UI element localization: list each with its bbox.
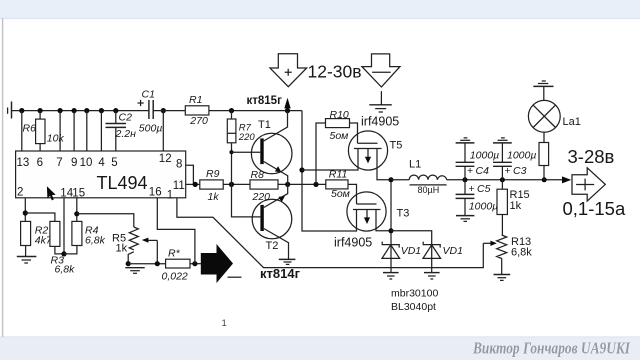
node T1 collector xyxy=(285,108,290,113)
svg-text:0,022: 0,022 xyxy=(162,271,188,283)
svg-text:+: + xyxy=(469,183,475,195)
node R7 top xyxy=(229,108,234,113)
svg-text:7: 7 xyxy=(56,157,62,169)
node pin2 xyxy=(23,210,28,215)
node emitters xyxy=(285,182,290,187)
resistor R9 xyxy=(200,168,223,203)
svg-text:irf4905: irf4905 xyxy=(334,236,372,250)
svg-text:BL3040pt: BL3040pt xyxy=(391,301,436,313)
resistor (lamp ballast) xyxy=(539,132,549,180)
svg-text:270: 270 xyxy=(189,115,208,127)
node R3/R4/pin14 xyxy=(61,251,66,256)
node R5 ground xyxy=(126,261,131,266)
node pin7 xyxy=(58,108,63,113)
svg-text:0,1-15a: 0,1-15a xyxy=(563,198,626,219)
ground (T2 collector) xyxy=(279,259,296,264)
wire pin15 to R5 xyxy=(77,214,134,227)
svg-text:R10: R10 xyxy=(330,109,349,121)
capacitor C1 xyxy=(138,89,163,135)
svg-text:9: 9 xyxy=(71,157,77,169)
svg-text:Виктор Гончаров UA9UKI: Виктор Гончаров UA9UKI xyxy=(472,339,630,358)
resistor R4 xyxy=(64,221,106,254)
capacitor C3 xyxy=(493,143,536,180)
resistor R15 xyxy=(497,180,530,235)
wire pin13 xyxy=(21,111,23,151)
wire pin7 xyxy=(59,111,61,151)
output arrow 3-28в xyxy=(562,168,605,201)
svg-text:R1: R1 xyxy=(189,94,202,106)
left page border line xyxy=(2,18,4,337)
svg-text:5: 5 xyxy=(111,157,117,169)
bottom blue band xyxy=(0,337,640,360)
node pin13 xyxy=(19,108,24,113)
ground (C4 top, inverted) xyxy=(456,138,475,143)
svg-text:C1: C1 xyxy=(142,89,155,101)
svg-text:11: 11 xyxy=(173,180,185,192)
capacitor C2 xyxy=(106,111,137,151)
node C2 top xyxy=(113,108,118,113)
wire drains (output node vertical) xyxy=(390,180,392,272)
transistor T5 irf4905 xyxy=(348,131,402,180)
diode VD1 (left, schottky) xyxy=(382,242,421,259)
svg-text:500µ: 500µ xyxy=(139,123,163,135)
wire R10 R11 link xyxy=(316,123,326,184)
wire pin4 xyxy=(100,111,102,151)
lamp La1 xyxy=(528,100,580,132)
wire +V bus left xyxy=(12,110,149,112)
svg-text:1k: 1k xyxy=(116,242,128,254)
node lamp xyxy=(542,177,547,182)
svg-text:80µH: 80µH xyxy=(418,185,440,195)
svg-text:irf4905: irf4905 xyxy=(361,115,399,129)
svg-text:C4: C4 xyxy=(476,165,490,177)
svg-text:220: 220 xyxy=(238,132,256,143)
power input arrow minus xyxy=(362,54,400,87)
resistor R6 xyxy=(23,111,65,151)
svg-text:La1: La1 xyxy=(563,116,581,128)
wire T1 base xyxy=(232,151,261,153)
resistor R3 xyxy=(50,221,75,275)
svg-text:R11: R11 xyxy=(329,169,347,181)
potentiometer R5 xyxy=(112,227,138,264)
wire pin15 xyxy=(76,198,78,222)
wire +V down (line A) xyxy=(302,111,357,231)
svg-text:1000µ: 1000µ xyxy=(469,201,498,213)
resistor R1 xyxy=(185,94,209,127)
svg-text:L1: L1 xyxy=(409,159,421,171)
svg-text:1000µ: 1000µ xyxy=(507,149,536,161)
svg-text:T2: T2 xyxy=(266,240,279,252)
svg-text:R6: R6 xyxy=(23,123,37,135)
svg-text:3-28в: 3-28в xyxy=(568,146,615,167)
resistor R8 xyxy=(250,169,278,203)
transistor Q1 T1 кт815г xyxy=(251,111,292,185)
svg-text:VD1: VD1 xyxy=(443,245,463,257)
wire pin8 xyxy=(186,165,194,184)
node C4 xyxy=(463,177,468,182)
node T3 drain / VD1 xyxy=(389,228,394,233)
ground (minus input) xyxy=(369,91,392,112)
mouse cursor xyxy=(47,186,56,200)
svg-text:12-30в: 12-30в xyxy=(308,61,362,81)
resistor R7 xyxy=(227,111,255,185)
power input arrow +12-30в xyxy=(270,54,362,87)
ground (R5 bottom) xyxy=(125,268,144,274)
capacitor C5 xyxy=(456,180,499,216)
wire pin10 xyxy=(86,111,88,151)
wiper R5 xyxy=(142,238,158,264)
node R10/R11 left xyxy=(313,182,318,187)
transistor Q2 T2 кт814г xyxy=(252,184,292,259)
svg-text:C3: C3 xyxy=(513,165,527,177)
black arrow (to current sense) xyxy=(201,244,242,283)
top blue band xyxy=(0,0,640,18)
svg-text:5ом: 5ом xyxy=(330,130,349,142)
node C3/R15 xyxy=(500,177,505,182)
ground (left end of +V bus, sideways) xyxy=(8,102,12,119)
node pin12 xyxy=(161,108,166,113)
svg-text:T3: T3 xyxy=(397,208,410,220)
node pin15 xyxy=(74,211,79,216)
op-amp U1 TL494 box xyxy=(16,151,186,198)
node T5 source branch xyxy=(299,167,304,172)
wire T5 source xyxy=(302,149,358,171)
ground (R2) xyxy=(17,246,37,264)
wire to second diode xyxy=(391,231,432,272)
svg-text:TL494: TL494 xyxy=(97,173,148,193)
svg-text:6,8k: 6,8k xyxy=(85,234,106,246)
svg-text:12: 12 xyxy=(159,153,172,165)
wire pin12 xyxy=(162,111,164,151)
arrow to +V (T1 collector) xyxy=(284,98,290,109)
wire R1 to +V corner xyxy=(209,110,302,112)
svg-text:+: + xyxy=(467,165,473,177)
svg-text:13: 13 xyxy=(17,157,30,169)
node pin10 xyxy=(84,108,89,113)
wire R8 right to R11 xyxy=(278,183,326,185)
wire pin2 xyxy=(24,198,26,222)
node pin4 xyxy=(99,108,104,113)
wire pin14 xyxy=(63,198,65,254)
transistor T3 irf4905 xyxy=(347,192,409,231)
wire pin16 to R* xyxy=(157,198,195,264)
capacitor C4 xyxy=(456,143,500,180)
resistor R10 xyxy=(326,109,350,142)
node T5 drain xyxy=(389,177,394,182)
svg-text:кт815г: кт815г xyxy=(247,95,283,107)
svg-text:8: 8 xyxy=(176,159,182,171)
svg-text:+: + xyxy=(505,165,511,177)
ground (C3 top, inverted) xyxy=(493,138,512,143)
svg-text:16: 16 xyxy=(149,186,162,198)
svg-text:4: 4 xyxy=(98,157,105,169)
svg-text:6,8k: 6,8k xyxy=(511,247,532,259)
wire R9 to node xyxy=(223,183,250,185)
wire pin2 to R3 xyxy=(25,213,55,221)
node wiper/pin16 line xyxy=(155,261,160,266)
wire T2 base xyxy=(232,184,261,217)
resistor R2 xyxy=(21,221,53,246)
wire feedback (R13 wiper to pin1) xyxy=(177,198,483,268)
svg-text:mbr30100: mbr30100 xyxy=(391,287,438,299)
wire pin9 xyxy=(73,111,75,151)
svg-text:T5: T5 xyxy=(390,140,403,152)
ground (VD1 right) xyxy=(424,273,440,279)
svg-text:1k: 1k xyxy=(208,191,220,203)
svg-text:1: 1 xyxy=(222,318,227,329)
wire ground to R* xyxy=(128,263,165,265)
svg-text:R*: R* xyxy=(168,248,181,260)
node T1 base tap xyxy=(229,150,233,154)
wire pin11 xyxy=(186,183,200,185)
inductor L1 xyxy=(391,159,447,195)
svg-text:2: 2 xyxy=(17,186,23,198)
svg-text:10k: 10k xyxy=(47,133,65,145)
svg-text:6,8k: 6,8k xyxy=(55,264,76,276)
svg-text:R9: R9 xyxy=(206,168,220,180)
wire C1 to R1 xyxy=(153,110,185,112)
svg-text:6: 6 xyxy=(37,157,43,169)
diode VD1 (right, schottky) xyxy=(423,242,463,259)
node R9/R7/base xyxy=(229,182,234,187)
potentiometer R13 xyxy=(483,235,532,259)
wire output line xyxy=(447,179,563,181)
resistor R11 xyxy=(326,169,350,200)
ground (VD1 left) xyxy=(383,273,399,279)
resistor R* (shunt) xyxy=(162,248,191,283)
svg-text:C5: C5 xyxy=(477,183,491,195)
node pin6 xyxy=(38,108,43,113)
ground (lamp top, inverted) xyxy=(533,81,553,100)
node pin9 xyxy=(72,108,77,113)
svg-text:1000µ: 1000µ xyxy=(470,149,499,161)
svg-text:2.2н: 2.2н xyxy=(115,128,137,140)
wire R* right xyxy=(190,263,201,265)
node R* right xyxy=(192,261,197,266)
ground (R13) xyxy=(494,259,511,281)
svg-text:15: 15 xyxy=(72,187,85,199)
ground (C5) xyxy=(456,216,474,222)
svg-text:T1: T1 xyxy=(258,119,271,131)
wire R11 to T3 gate xyxy=(348,184,357,204)
wire R10 to T5 gate xyxy=(350,123,358,143)
svg-text:VD1: VD1 xyxy=(401,245,421,257)
svg-text:10: 10 xyxy=(80,157,93,169)
svg-text:5ом: 5ом xyxy=(331,188,350,200)
svg-text:220: 220 xyxy=(252,191,271,203)
svg-text:C2: C2 xyxy=(119,111,133,123)
node pin8/pin11 xyxy=(193,182,198,187)
svg-text:1k: 1k xyxy=(510,200,522,212)
